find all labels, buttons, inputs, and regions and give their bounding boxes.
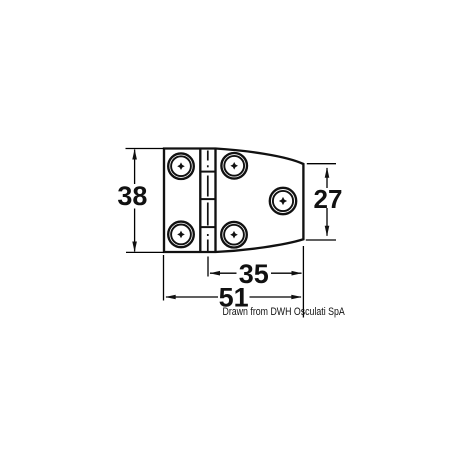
- dim 27 extension line top: [307, 163, 336, 165]
- dim 51 extension line left: [163, 255, 165, 301]
- screw hole right leaf: [270, 188, 296, 214]
- hinge barrel right edge: [214, 149, 216, 253]
- screw hole top-left: [168, 153, 194, 179]
- dim 38 extension line bottom: [126, 251, 164, 253]
- hinge outline (left leaf + rounded right leaf): [164, 149, 303, 253]
- svg-text:Drawn from DWH Osculati SpA: Drawn from DWH Osculati SpA: [223, 306, 346, 318]
- dim 35 line left segment: [210, 272, 237, 274]
- dim 38 arrow up: [132, 149, 137, 160]
- knuckle divider 2: [200, 198, 215, 200]
- knuckle divider 1: [200, 171, 215, 173]
- hinge barrel left edge: [199, 149, 201, 253]
- dim 35 extension line left (pin axis): [207, 257, 209, 277]
- dim 38 extension line top: [126, 148, 165, 150]
- dim 27 extension line bottom: [306, 239, 336, 241]
- dim 35 / 51 extension line right: [302, 246, 304, 318]
- dim 27 arrow up: [325, 167, 330, 178]
- pin centerline (dash-dot): [207, 151, 209, 252]
- knuckle divider 3: [200, 226, 215, 228]
- dim 38 line lower segment: [134, 209, 136, 252]
- svg-text:27: 27: [314, 184, 343, 214]
- dim 51 line left segment: [166, 296, 218, 298]
- dim 51 arrow left: [165, 295, 176, 300]
- screw hole bottom-right: [221, 222, 247, 248]
- dim 35 arrow right: [292, 271, 303, 276]
- dim 35 arrow left: [210, 271, 221, 276]
- dim 51 line right segment: [250, 296, 302, 298]
- screw hole bottom-left: [168, 222, 194, 248]
- dim 38 line upper segment: [134, 150, 136, 185]
- dim 38 arrow down: [132, 242, 137, 253]
- svg-text:38: 38: [117, 181, 147, 211]
- screw hole top-right: [221, 153, 247, 179]
- dim 27 line lower segment: [326, 208, 328, 236]
- dim 27 arrow down: [325, 226, 330, 237]
- dim 35 line right segment: [271, 272, 302, 274]
- dim 51 arrow right: [291, 295, 302, 300]
- dim 27 line upper segment: [326, 168, 328, 188]
